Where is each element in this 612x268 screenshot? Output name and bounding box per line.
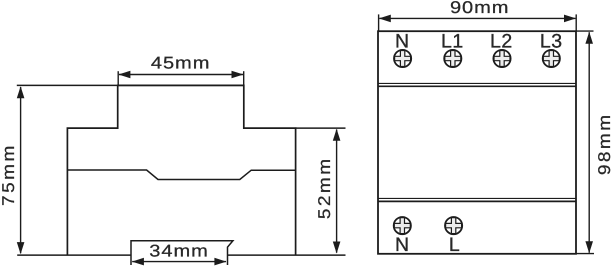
dimension 90mm	[379, 14, 577, 31]
terminal label L1	[441, 30, 464, 52]
side view: top edge with left extension line for 75mm	[17, 84, 244, 86]
terminal label L3	[540, 30, 563, 52]
svg-text:L1: L1	[441, 30, 464, 52]
front view: body rectangle	[378, 31, 576, 254]
side view: bottom base line left segment (75mm extension)	[17, 254, 131, 256]
svg-text:90mm: 90mm	[450, 0, 510, 17]
screw terminal L1	[444, 50, 461, 67]
dimension 98mm	[576, 31, 594, 254]
terminal label N (top)	[395, 30, 410, 52]
screw terminal N (bottom)	[394, 217, 411, 234]
svg-text:45mm: 45mm	[151, 53, 211, 72]
dimension 52mm	[333, 129, 341, 254]
side view: DIN rail foot (34mm tab)	[131, 241, 233, 265]
svg-text:34mm: 34mm	[149, 242, 209, 261]
svg-text:52mm: 52mm	[315, 156, 334, 219]
side view: device outline	[67, 85, 295, 255]
front view: bottom terminal strip divider lines	[378, 198, 576, 201]
svg-text:N: N	[395, 30, 410, 52]
dimension 45mm	[118, 71, 244, 86]
side view: cover seam line with notch	[67, 170, 295, 180]
side view: bottom base line right segment (52mm extension)	[228, 254, 346, 256]
svg-text:L: L	[449, 234, 460, 256]
front view: top terminal strip divider lines	[378, 83, 576, 86]
dimension 75mm	[17, 86, 25, 254]
side view: step extension line for 52mm	[296, 127, 346, 129]
svg-text:L3: L3	[540, 30, 563, 52]
svg-text:N: N	[395, 234, 410, 256]
screw terminal N (top)	[394, 50, 411, 67]
terminal label L (bottom)	[449, 234, 460, 256]
terminal label N (bottom)	[395, 234, 410, 256]
screw terminal L (bottom)	[445, 217, 462, 234]
svg-text:L2: L2	[490, 30, 513, 52]
screw terminal L2	[493, 50, 510, 67]
terminal label L2	[490, 30, 513, 52]
svg-text:98mm: 98mm	[595, 112, 612, 175]
svg-text:75mm: 75mm	[0, 143, 18, 206]
screw terminal L3	[543, 50, 560, 67]
dimension 34mm	[132, 258, 227, 266]
